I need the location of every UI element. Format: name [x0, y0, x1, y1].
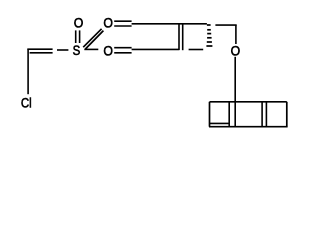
- bond C-S: [57, 49, 68, 51]
- bond C=C vertical line1: [178, 25, 180, 51]
- svg-text:O: O: [74, 15, 84, 31]
- ring box left edge: [209, 102, 211, 127]
- bond S=O2 diagonal line2: [85, 31, 103, 49]
- hashed wedge dash1: [207, 24, 211, 26]
- ring box right edge: [286, 102, 288, 127]
- svg-text:O: O: [103, 43, 113, 59]
- hashed wedge dash6: [206, 45, 212, 47]
- bond C=C line1: [27, 48, 52, 50]
- bond O2=C line2: [114, 25, 131, 27]
- svg-text:O: O: [231, 43, 241, 59]
- bond O3=C line1: [114, 47, 131, 49]
- bond C-O4 horizontal: [215, 24, 236, 26]
- ring box bottom edge: [209, 126, 288, 128]
- bond C-C top long: [132, 23, 207, 25]
- ring box top edge: [210, 101, 287, 103]
- bond O2=C line1: [114, 20, 131, 22]
- ring inner vertical divider: [228, 102, 230, 127]
- svg-text:O: O: [103, 15, 113, 31]
- hashed wedge dash2: [207, 29, 211, 31]
- bond bottom short segment: [189, 49, 204, 51]
- ring inner vertical pair line1: [261, 102, 263, 127]
- ring inner vertical pair line2: [265, 102, 267, 127]
- bond S-O3: [84, 48, 98, 50]
- bond Cl-C vertical: [27, 49, 29, 94]
- bond S=O1 line1: [75, 30, 77, 43]
- hashed wedge dash3: [207, 33, 211, 35]
- bond C=C line2: [30, 52, 53, 54]
- hashed wedge dash4: [207, 37, 212, 39]
- bond C=C vertical line2: [182, 25, 184, 51]
- bond O3=C line2: [114, 52, 131, 54]
- bond S=O1 line2: [79, 30, 81, 43]
- ring inner double bottom-left: [210, 122, 230, 124]
- bond C-O4 vertical down to O: [235, 25, 237, 44]
- svg-text:Cl: Cl: [21, 94, 32, 110]
- hashed wedge dash5: [207, 41, 212, 43]
- svg-text:S: S: [73, 42, 81, 58]
- bond O4 down to ring: [234, 57, 236, 127]
- bond C-C bottom long: [132, 48, 180, 50]
- bond S=O2 diagonal line1: [83, 29, 101, 47]
